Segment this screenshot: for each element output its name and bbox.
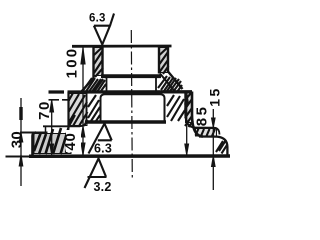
svg-text:6.3: 6.3 xyxy=(89,12,106,24)
svg-text:85: 85 xyxy=(194,105,211,127)
svg-text:15: 15 xyxy=(207,86,223,107)
svg-text:3.2: 3.2 xyxy=(94,180,112,194)
svg-text:70: 70 xyxy=(36,100,53,120)
svg-text:30: 30 xyxy=(8,131,25,148)
svg-text:100: 100 xyxy=(64,47,81,79)
svg-text:40: 40 xyxy=(62,132,79,150)
svg-text:6.3: 6.3 xyxy=(94,142,112,156)
